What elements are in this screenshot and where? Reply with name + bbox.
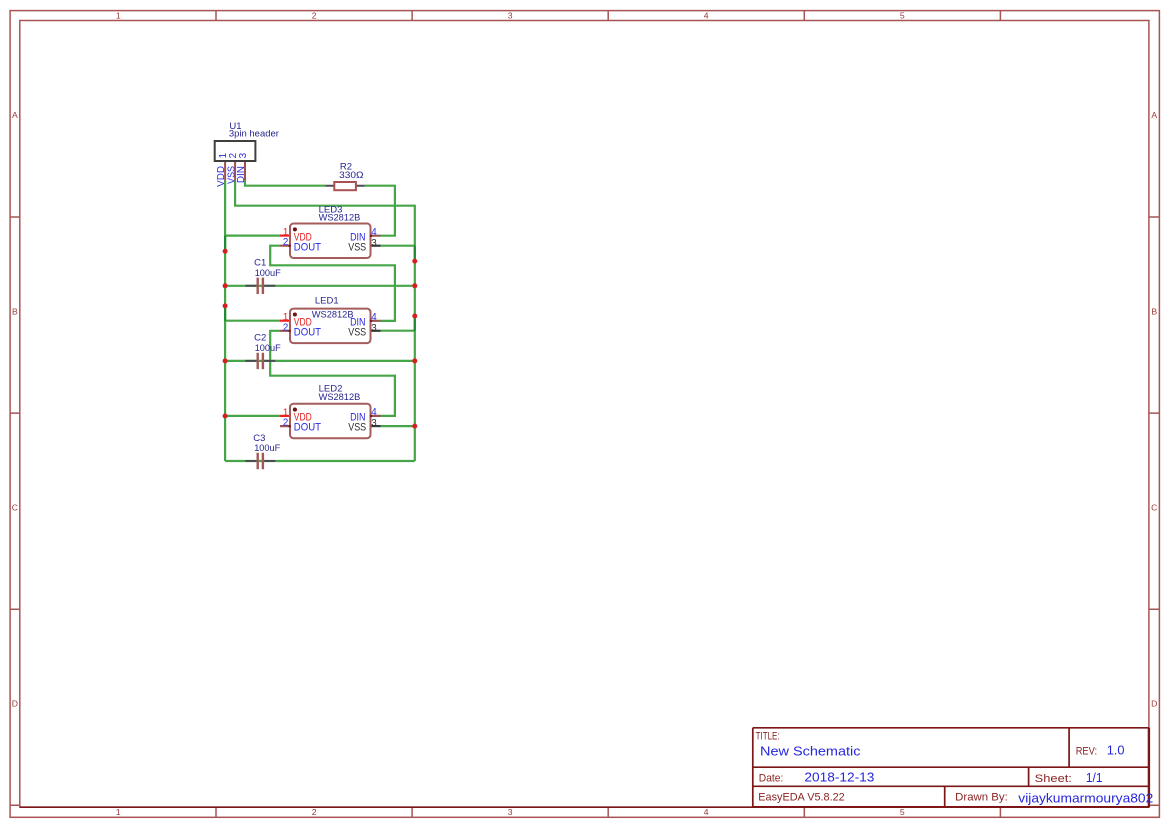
wire R2 to LED3 DIN [365,186,395,236]
svg-text:Sheet:: Sheet: [1035,773,1072,785]
svg-text:2018-12-13: 2018-12-13 [804,769,874,784]
op-amp U: LED2 WS2812B [280,384,381,439]
svg-text:New Schematic: New Schematic [760,743,861,758]
svg-text:Drawn By:: Drawn By: [955,792,1008,804]
junction [223,283,228,288]
wire C2 row [225,360,415,362]
svg-text:100uF: 100uF [254,443,280,454]
svg-text:2: 2 [312,11,317,21]
svg-text:WS2812B: WS2812B [319,392,361,403]
wire VDD rail [224,181,226,461]
svg-text:3: 3 [371,418,377,429]
svg-text:C: C [12,502,18,512]
svg-text:TITLE:: TITLE: [756,730,780,742]
svg-text:4: 4 [371,407,377,418]
svg-text:3: 3 [508,807,513,817]
wire overlap segments [225,236,415,331]
wire LED2 VSS [381,425,415,427]
svg-text:1: 1 [116,11,121,21]
svg-text:Date:: Date: [759,772,784,784]
svg-text:vijaykumarmourya802: vijaykumarmourya802 [1018,791,1153,806]
junction [412,314,417,319]
svg-text:VSS: VSS [348,327,366,339]
svg-text:3pin header: 3pin header [229,129,279,140]
svg-text:B: B [12,306,18,316]
svg-text:100uF: 100uF [255,343,281,354]
svg-text:2: 2 [283,237,288,248]
svg-text:B: B [1151,306,1157,316]
wire VSS rail [235,181,415,461]
svg-text:2: 2 [283,322,288,333]
svg-text:3: 3 [508,11,513,21]
svg-text:1.0: 1.0 [1107,743,1125,758]
capacitor C3 [245,433,280,469]
svg-text:4: 4 [371,312,377,323]
resistor R2 [325,161,364,190]
junction [412,424,417,429]
junction [223,303,228,308]
svg-text:2: 2 [312,807,317,817]
svg-text:A: A [12,110,18,120]
svg-text:D: D [12,699,18,709]
svg-text:4: 4 [704,11,709,21]
svg-text:VSS: VSS [348,422,366,434]
svg-text:3: 3 [371,323,377,334]
svg-text:3: 3 [371,238,377,249]
op-amp U: LED1 WS2812B [280,295,381,343]
title block [20,728,1149,807]
capacitor C1 [245,258,281,294]
svg-text:A: A [1151,110,1157,120]
svg-text:DOUT: DOUT [294,241,322,253]
wire C3 row [225,460,415,462]
wire LED3 VSS [381,245,415,247]
junction [223,414,228,419]
wire LED1 VDD [225,320,280,322]
svg-text:DOUT: DOUT [294,422,322,434]
svg-text:5: 5 [900,11,905,21]
wire C1 row [225,285,415,287]
junction [223,249,228,254]
svg-text:REV:: REV: [1076,746,1097,758]
svg-text:EasyEDA V5.8.22: EasyEDA V5.8.22 [758,792,844,804]
svg-text:D: D [1151,699,1157,709]
svg-text:4: 4 [371,227,377,238]
wire LED2 VDD [225,415,280,417]
svg-text:4: 4 [704,807,709,817]
wire LED1 VSS [381,330,415,332]
connector U1 3pin header [215,121,279,187]
wire LED1 DOUT to LED2 DIN [270,331,395,416]
svg-text:C: C [1151,502,1157,512]
svg-text:LED1: LED1 [315,295,339,306]
wire LED3 VDD [225,235,280,237]
junction [412,283,417,288]
svg-text:WS2812B: WS2812B [319,212,361,223]
svg-text:WS2812B: WS2812B [312,310,354,321]
junction [412,259,417,264]
svg-text:1/1: 1/1 [1086,770,1103,785]
svg-text:3: 3 [238,152,249,158]
junction [223,358,228,363]
capacitor C2 [245,333,281,369]
svg-text:100uF: 100uF [255,268,281,279]
op-amp U: LED3 WS2812B [280,204,381,258]
svg-text:VSS: VSS [348,241,366,253]
wire LED3 DOUT to LED1 DIN [270,246,395,321]
svg-text:DIN: DIN [236,166,247,183]
svg-text:1: 1 [116,807,121,817]
junction [412,358,417,363]
svg-text:330Ω: 330Ω [339,170,363,181]
svg-text:DOUT: DOUT [294,327,322,339]
svg-text:5: 5 [900,807,905,817]
svg-text:2: 2 [283,417,288,428]
wire U1 DIN to R2 [245,181,325,186]
